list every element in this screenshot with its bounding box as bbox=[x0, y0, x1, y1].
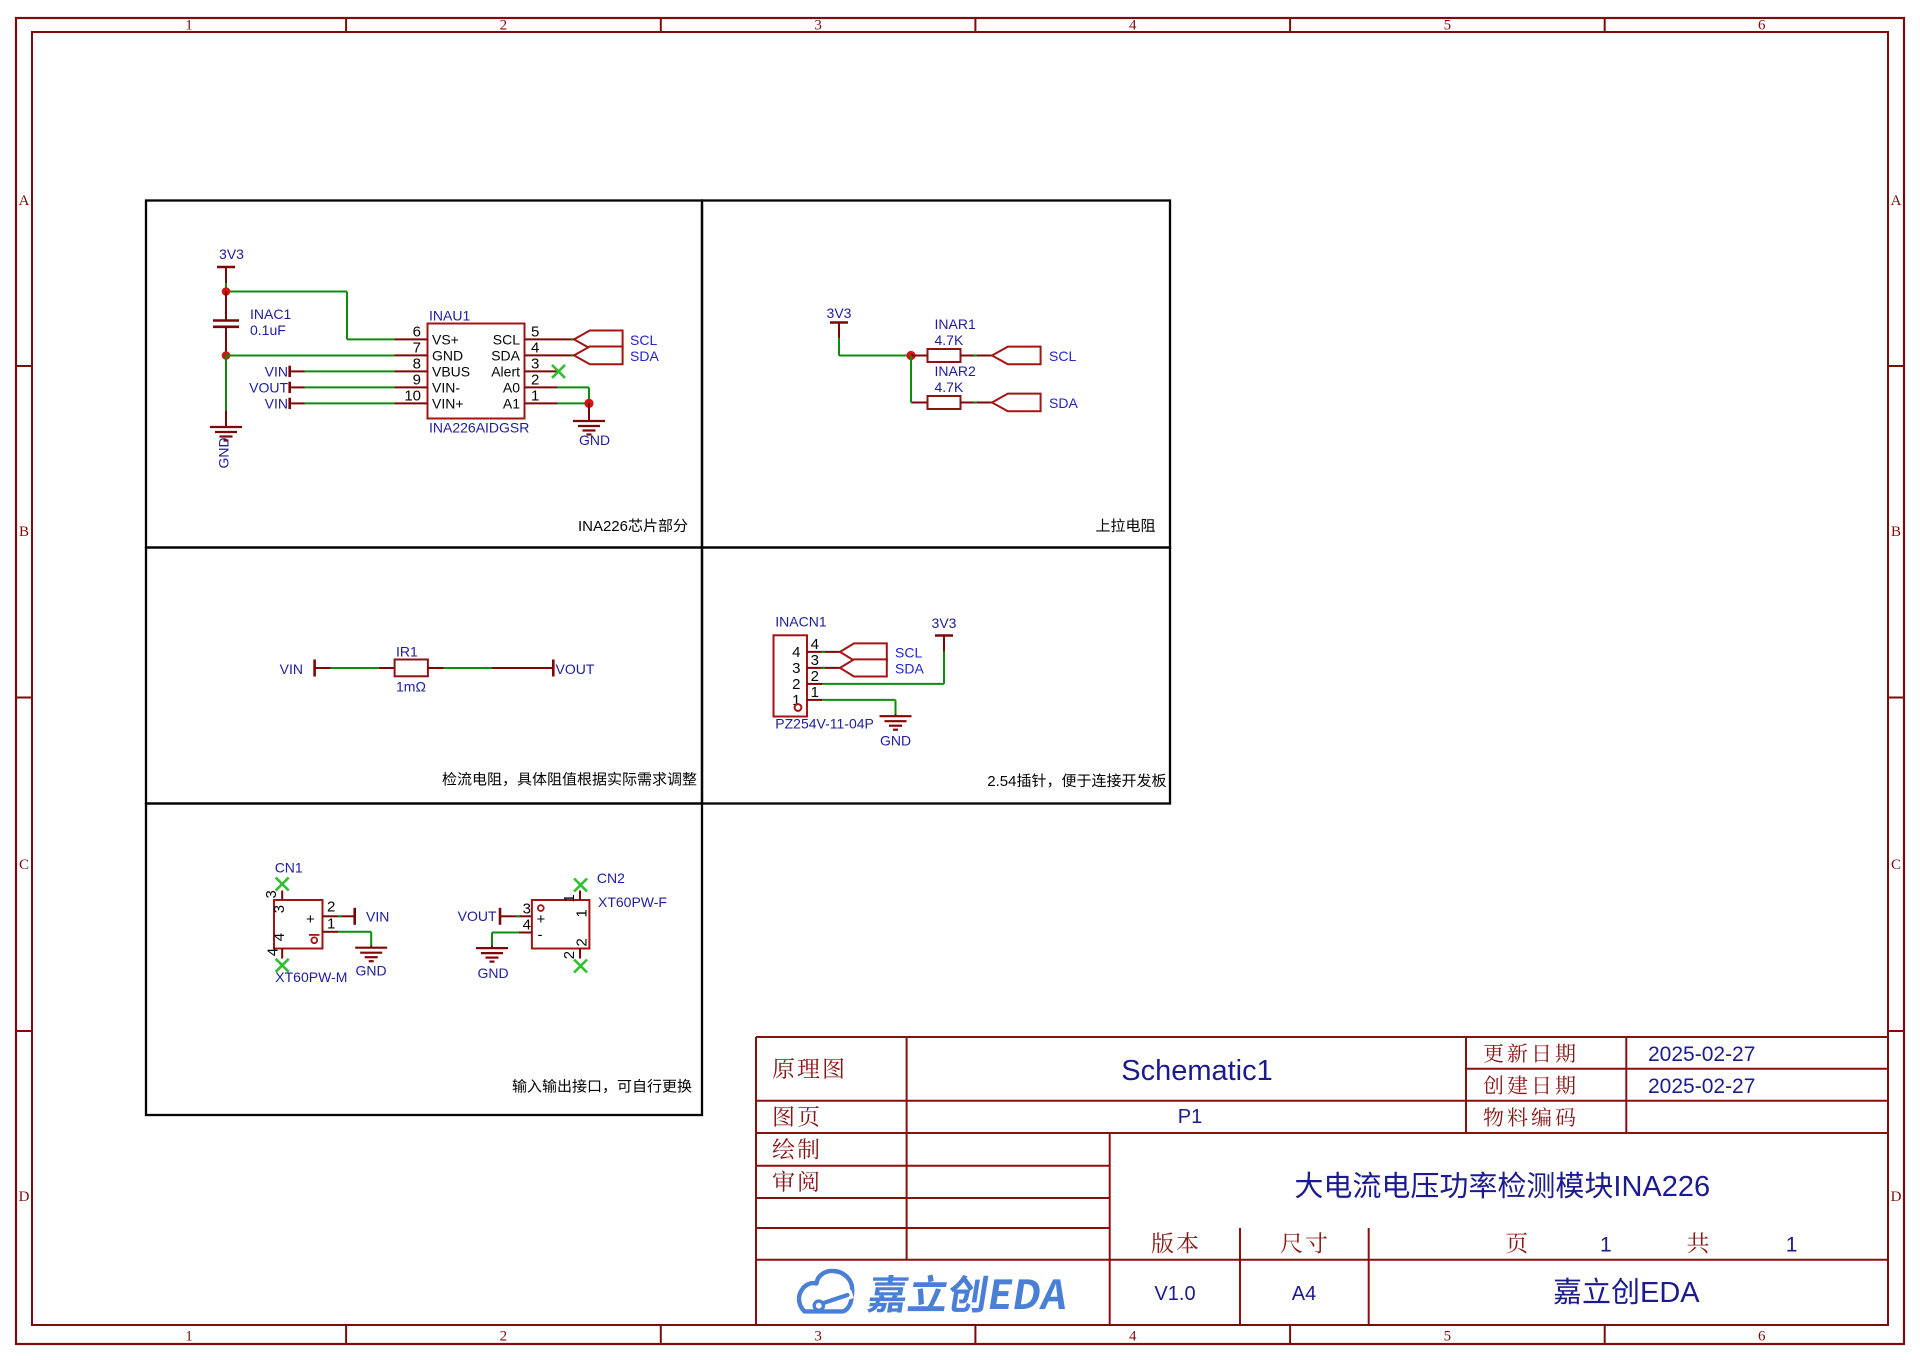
IC left pins 6-10 bbox=[395, 338, 428, 340]
note: 2.54 header for dev board bbox=[1017, 773, 1166, 787]
section box 2.54 header bbox=[702, 548, 1170, 804]
resistor INAR2 4.7K bbox=[912, 402, 928, 404]
ground symbol (CN2) bbox=[491, 946, 493, 949]
svg-text:INAR1: INAR1 bbox=[935, 316, 976, 332]
svg-text:SCL: SCL bbox=[630, 332, 657, 348]
svg-text:1: 1 bbox=[1786, 1234, 1798, 1257]
no-connect X on Alert pin bbox=[552, 365, 565, 378]
wire to INAR2 bbox=[910, 356, 912, 403]
ground symbol (chip A0/A1) bbox=[588, 403, 590, 421]
svg-text:SDA: SDA bbox=[630, 348, 659, 364]
net flag SCL (pull-up) bbox=[992, 347, 1041, 365]
svg-text:SDA: SDA bbox=[491, 348, 520, 364]
svg-text:2025-02-27: 2025-02-27 bbox=[1648, 1043, 1755, 1066]
svg-text:4: 4 bbox=[811, 636, 819, 653]
svg-text:INA226AIDGSR: INA226AIDGSR bbox=[429, 420, 529, 436]
svg-text:VIN-: VIN- bbox=[432, 380, 460, 396]
svg-text:+: + bbox=[306, 911, 315, 928]
section box sense resistor bbox=[146, 548, 702, 804]
svg-text:1: 1 bbox=[811, 684, 819, 701]
CN1 pin4 stub + X bbox=[281, 949, 283, 959]
svg-text:1: 1 bbox=[327, 915, 335, 932]
svg-text:3V3: 3V3 bbox=[219, 246, 244, 262]
JLC EDA logo text bbox=[867, 1275, 1071, 1313]
svg-text:3V3: 3V3 bbox=[932, 615, 957, 631]
svg-text:GND: GND bbox=[356, 963, 387, 979]
wire GND net to chip pin7 bbox=[226, 355, 395, 357]
svg-text:1: 1 bbox=[531, 387, 539, 404]
svg-text:5: 5 bbox=[1444, 1329, 1452, 1345]
svg-text:SCL: SCL bbox=[493, 332, 520, 348]
port VOUT (sense) bbox=[492, 667, 553, 669]
svg-text:SCL: SCL bbox=[1049, 348, 1076, 364]
section box IO connectors bbox=[146, 804, 702, 1116]
svg-text:0.1uF: 0.1uF bbox=[250, 322, 286, 338]
svg-text:D: D bbox=[19, 1189, 30, 1205]
wire down to ground bbox=[225, 356, 227, 411]
svg-text:1: 1 bbox=[185, 1329, 193, 1345]
svg-text:2: 2 bbox=[500, 1329, 508, 1345]
svg-text:INA226: INA226 bbox=[1613, 1171, 1710, 1203]
svg-text:A0: A0 bbox=[503, 380, 520, 396]
svg-text:6: 6 bbox=[1758, 18, 1766, 34]
svg-text:INACN1: INACN1 bbox=[775, 614, 827, 630]
wire pin1 to GND bbox=[807, 699, 822, 701]
svg-text:VS+: VS+ bbox=[432, 332, 459, 348]
svg-text:3: 3 bbox=[523, 900, 531, 917]
svg-text:1mΩ: 1mΩ bbox=[396, 679, 426, 695]
svg-text:VOUT: VOUT bbox=[458, 908, 497, 924]
svg-text:4: 4 bbox=[531, 339, 539, 356]
wire pin2 to 3V3 bbox=[943, 652, 945, 684]
section box INA226 chip part bbox=[146, 201, 702, 548]
svg-text:4: 4 bbox=[523, 916, 531, 933]
pin1 indicator circle bbox=[795, 704, 802, 711]
wire IR1 to VOUT bbox=[444, 667, 492, 669]
svg-text:C: C bbox=[19, 857, 29, 873]
CN2 top pin1 + X bbox=[579, 891, 581, 901]
svg-text:3: 3 bbox=[531, 355, 539, 372]
svg-text:CN2: CN2 bbox=[597, 870, 625, 886]
svg-text:4: 4 bbox=[792, 644, 800, 661]
svg-text:3V3: 3V3 bbox=[827, 305, 852, 321]
sheet title bbox=[1296, 1171, 1613, 1198]
svg-text:2025-02-27: 2025-02-27 bbox=[1648, 1075, 1755, 1098]
svg-text:3: 3 bbox=[263, 890, 280, 898]
node junction cap/GND net bbox=[222, 351, 231, 360]
svg-text:V1.0: V1.0 bbox=[1154, 1283, 1195, 1305]
note: IO connectors replaceable bbox=[513, 1079, 692, 1093]
svg-text:A: A bbox=[19, 193, 30, 209]
net flag SDA (header) bbox=[807, 667, 840, 669]
svg-text:3: 3 bbox=[811, 652, 819, 669]
svg-text:A4: A4 bbox=[1292, 1283, 1316, 1305]
svg-text:1: 1 bbox=[185, 18, 193, 34]
CN2 bottom pin2 + X bbox=[579, 949, 581, 959]
svg-text:SDA: SDA bbox=[895, 661, 924, 677]
frame column ticks bbox=[345, 18, 347, 32]
svg-text:IR1: IR1 bbox=[396, 644, 418, 660]
title block grid bbox=[756, 1036, 1888, 1038]
svg-text:D: D bbox=[1891, 1189, 1902, 1205]
svg-text:2: 2 bbox=[561, 951, 578, 959]
svg-text:+: + bbox=[537, 911, 546, 928]
IC U1 INA226AIDGSR body bbox=[428, 324, 525, 419]
svg-text:XT60PW-F: XT60PW-F bbox=[598, 894, 667, 910]
svg-text:2.54: 2.54 bbox=[987, 773, 1016, 790]
svg-text:2: 2 bbox=[811, 668, 819, 685]
svg-text:9: 9 bbox=[413, 371, 421, 388]
svg-text:GND: GND bbox=[216, 437, 232, 468]
node junction A0/A1 bbox=[584, 399, 593, 408]
wire A0 to A1 junction bbox=[558, 386, 590, 388]
svg-text:INA226: INA226 bbox=[578, 518, 628, 535]
svg-text:VIN: VIN bbox=[265, 363, 288, 379]
svg-text:XT60PW-M: XT60PW-M bbox=[275, 969, 347, 985]
note: pull-up resistors bbox=[1096, 518, 1155, 532]
svg-text:2: 2 bbox=[531, 371, 539, 388]
svg-text:VIN: VIN bbox=[366, 908, 389, 924]
JLC EDA logo cloud bbox=[799, 1271, 852, 1312]
svg-text:4.7K: 4.7K bbox=[935, 379, 964, 395]
svg-text:4: 4 bbox=[1129, 18, 1137, 34]
svg-text:5: 5 bbox=[531, 323, 539, 340]
resistor INAR1 4.7K bbox=[911, 355, 928, 357]
svg-text:Alert: Alert bbox=[491, 364, 520, 380]
svg-text:3: 3 bbox=[814, 18, 822, 34]
svg-text:A: A bbox=[1891, 193, 1902, 209]
svg-text:VIN: VIN bbox=[265, 395, 288, 411]
net flag SDA (pull-up) bbox=[992, 394, 1041, 412]
svg-text:3: 3 bbox=[792, 660, 800, 677]
svg-text:1: 1 bbox=[1600, 1234, 1612, 1257]
node junction R1/R2 bbox=[906, 351, 915, 360]
net flag SCL (header) bbox=[807, 651, 840, 653]
svg-text:GND: GND bbox=[478, 965, 509, 981]
svg-text:4: 4 bbox=[271, 933, 288, 941]
title block labels bbox=[773, 1058, 844, 1079]
svg-text:3: 3 bbox=[814, 1329, 822, 1345]
IC right pins 1-5 bbox=[525, 338, 558, 340]
svg-text:VBUS: VBUS bbox=[432, 364, 470, 380]
svg-text:GND: GND bbox=[579, 432, 610, 448]
svg-text:P1: P1 bbox=[1178, 1106, 1202, 1128]
svg-text:4: 4 bbox=[1129, 1329, 1137, 1345]
svg-text:10: 10 bbox=[404, 387, 421, 404]
svg-text:8: 8 bbox=[413, 355, 421, 372]
svg-text:2: 2 bbox=[327, 898, 335, 915]
capacitor INAC1 0.1uF bbox=[225, 292, 227, 321]
svg-text:2: 2 bbox=[574, 938, 591, 946]
svg-text:GND: GND bbox=[880, 732, 911, 748]
svg-text:INAC1: INAC1 bbox=[250, 306, 291, 322]
svg-text:VIN: VIN bbox=[280, 661, 303, 677]
wire 3V3 to VS+ bbox=[225, 283, 227, 292]
svg-text:Schematic1: Schematic1 bbox=[1121, 1055, 1273, 1087]
svg-text:3: 3 bbox=[271, 905, 288, 913]
company name cell bbox=[1554, 1277, 1637, 1304]
svg-text:7: 7 bbox=[413, 339, 421, 356]
svg-text:EDA: EDA bbox=[1640, 1277, 1700, 1309]
ground symbol (left) bbox=[225, 411, 227, 428]
svg-text:INAU1: INAU1 bbox=[429, 308, 470, 324]
section box pull-up resistors bbox=[702, 201, 1170, 548]
svg-text:VOUT: VOUT bbox=[556, 661, 595, 677]
note: INA226 chip section bbox=[629, 518, 688, 532]
svg-text:A1: A1 bbox=[503, 396, 520, 412]
frame row ticks bbox=[16, 365, 32, 367]
wire 3V3 to resistors bbox=[839, 355, 911, 357]
svg-text:1: 1 bbox=[561, 894, 578, 902]
node junction 3V3/cap bbox=[222, 287, 231, 296]
wire VIN to IR1 bbox=[331, 667, 379, 669]
svg-text:INAR2: INAR2 bbox=[935, 363, 976, 379]
svg-text:6: 6 bbox=[1758, 1329, 1766, 1345]
svg-text:SDA: SDA bbox=[1049, 395, 1078, 411]
svg-text:1: 1 bbox=[574, 909, 591, 917]
svg-text:C: C bbox=[1891, 857, 1901, 873]
ground symbol (CN1) bbox=[370, 946, 372, 948]
net flag SDA (chip) bbox=[558, 354, 575, 356]
svg-text:6: 6 bbox=[413, 323, 421, 340]
svg-text:B: B bbox=[1891, 524, 1901, 540]
svg-text:CN1: CN1 bbox=[275, 860, 303, 876]
svg-text:VOUT: VOUT bbox=[249, 379, 288, 395]
svg-text:5: 5 bbox=[1444, 18, 1452, 34]
net flag SCL (chip) bbox=[558, 338, 575, 340]
resistor IR1 1mOhm bbox=[379, 667, 395, 669]
svg-text:2: 2 bbox=[500, 18, 508, 34]
svg-text:-: - bbox=[538, 927, 543, 944]
svg-text:SCL: SCL bbox=[895, 645, 922, 661]
svg-text:PZ254V-11-04P: PZ254V-11-04P bbox=[775, 716, 874, 732]
svg-text:4: 4 bbox=[264, 948, 281, 956]
svg-text:B: B bbox=[19, 524, 29, 540]
svg-text:2: 2 bbox=[792, 676, 800, 693]
svg-text:GND: GND bbox=[432, 348, 463, 364]
ground symbol (header) bbox=[895, 714, 897, 716]
svg-text:VIN+: VIN+ bbox=[432, 396, 464, 412]
note: sense resistor adjust bbox=[442, 772, 696, 786]
svg-text:4.7K: 4.7K bbox=[935, 332, 964, 348]
